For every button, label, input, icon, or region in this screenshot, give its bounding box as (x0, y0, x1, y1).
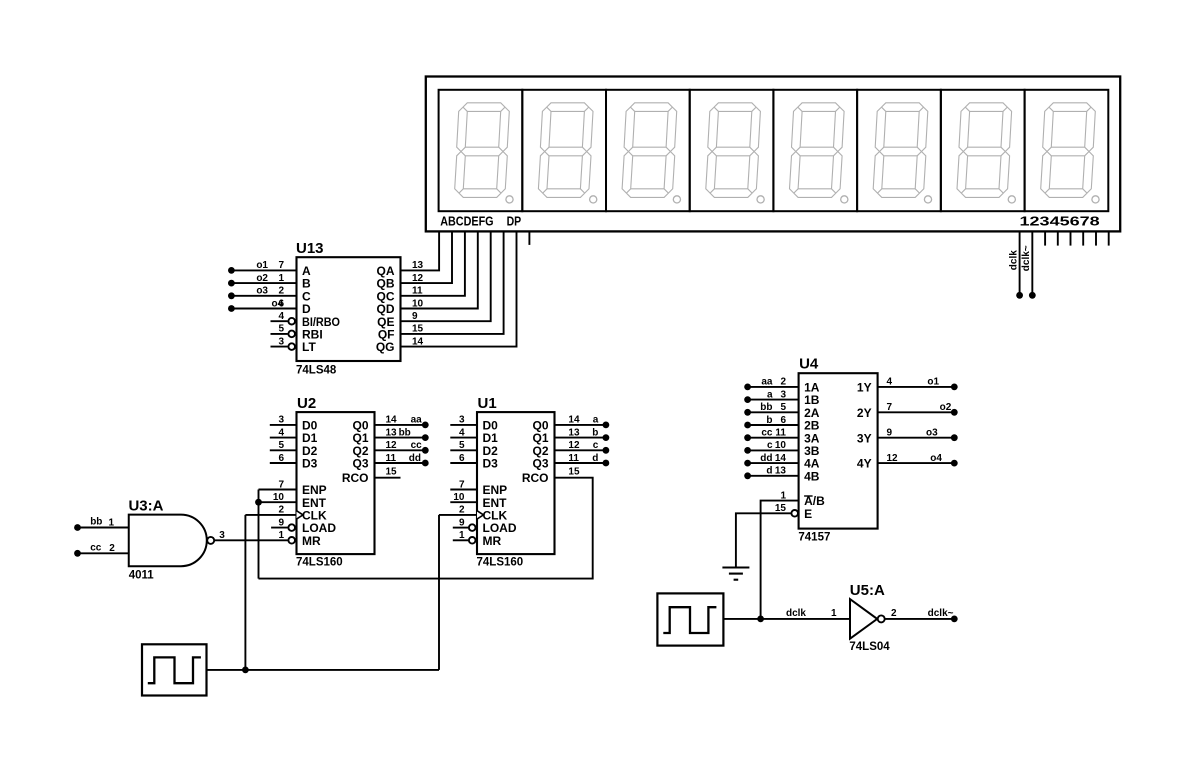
svg-text:5: 5 (278, 324, 284, 335)
svg-text:74LS160: 74LS160 (477, 557, 524, 569)
wire U13 QD to display segment D (401, 231, 478, 308)
svg-text:b: b (766, 415, 772, 426)
wire feedback vertical at U2 (258, 490, 260, 579)
svg-text:7: 7 (459, 479, 465, 490)
svg-text:dd: dd (760, 453, 772, 464)
U5:A output bubble (878, 615, 885, 622)
svg-text:12: 12 (568, 440, 580, 451)
wire U4 2Y to net o2 (878, 411, 955, 413)
node d terminal (603, 460, 610, 467)
counter U2 body (297, 412, 375, 554)
svg-text:12: 12 (386, 440, 398, 451)
node bb terminal (422, 434, 429, 441)
svg-text:MR: MR (302, 534, 321, 548)
U2 pin 3 stub D0 (270, 424, 297, 426)
wire clock1 to U2 CLK vertical (244, 515, 246, 670)
U2 pin 5 stub D2 (270, 449, 297, 451)
wire U2 Q2 to net cc (375, 449, 426, 451)
U3:A output bubble (207, 537, 214, 544)
svg-text:bb: bb (90, 517, 102, 528)
svg-text:4: 4 (887, 377, 893, 388)
svg-text:9: 9 (278, 517, 284, 528)
U4 inversion bubble E (791, 510, 798, 517)
svg-text:aa: aa (761, 377, 773, 388)
svg-text:MR: MR (483, 534, 502, 548)
mux U4 body (799, 373, 878, 528)
node cc terminal (744, 434, 751, 441)
wire c to U4 pin 10 (748, 449, 799, 451)
node o1 terminal (228, 267, 235, 274)
svg-text:3Y: 3Y (857, 431, 872, 445)
U1 pin 5 stub D2 (450, 449, 477, 451)
svg-text:3: 3 (219, 530, 225, 541)
junction ENT/ENP feedback (255, 499, 262, 506)
svg-text:dclk~: dclk~ (928, 608, 954, 619)
svg-text:14: 14 (775, 453, 787, 464)
wire a to U4 pin 3 (748, 399, 799, 401)
svg-text:1: 1 (108, 517, 114, 528)
svg-text:RCO: RCO (522, 471, 549, 485)
svg-text:13: 13 (568, 427, 580, 438)
svg-text:U5:A: U5:A (850, 582, 885, 599)
svg-text:5: 5 (278, 440, 284, 451)
node b terminal (603, 434, 610, 441)
node o4 terminal (228, 305, 235, 312)
clock source 1 waveform (148, 657, 201, 683)
U1 ENT stub (450, 501, 477, 503)
svg-text:2Y: 2Y (857, 406, 872, 420)
svg-text:2: 2 (278, 505, 284, 516)
wire U5:A output to dclk~ terminal (885, 618, 954, 620)
svg-text:aa: aa (411, 415, 423, 426)
node b terminal (744, 422, 751, 429)
node bb terminal (744, 409, 751, 416)
svg-text:o2: o2 (940, 402, 952, 413)
wire U2 Q3 to net dd (375, 462, 426, 464)
svg-text:11: 11 (412, 286, 423, 297)
svg-text:13: 13 (386, 427, 398, 438)
svg-text:10: 10 (453, 492, 465, 503)
svg-text:10: 10 (412, 298, 424, 309)
wire U2 Q1 to net bb (375, 437, 426, 439)
svg-text:9: 9 (887, 428, 893, 439)
wire dclk to U4 A/B select (761, 501, 799, 619)
wire U13 QG to display segment G (401, 231, 517, 346)
svg-text:U1: U1 (478, 395, 497, 412)
U2 pin 6 stub D3 (270, 462, 297, 464)
svg-text:4B: 4B (804, 469, 820, 483)
svg-text:1: 1 (831, 608, 837, 619)
seven-segment glyphs (8 digits) (455, 103, 1099, 203)
svg-text:74LS04: 74LS04 (849, 641, 890, 653)
node cc terminal (74, 550, 81, 557)
junction clock1 branch (242, 667, 249, 674)
svg-text:3: 3 (278, 336, 284, 347)
U2 inversion bubble MR (288, 537, 295, 544)
svg-text:dd: dd (409, 453, 421, 464)
svg-text:cc: cc (90, 543, 102, 554)
svg-text:15: 15 (568, 466, 580, 477)
svg-text:D3: D3 (302, 457, 318, 471)
U13 pin 4 stub (271, 320, 288, 322)
wire U13 QE to display segment E (401, 231, 491, 321)
svg-text:6: 6 (459, 453, 465, 464)
wire dclk from clock2 to U5:A input (723, 618, 850, 620)
svg-text:14: 14 (386, 415, 398, 426)
wire dd to U4 pin 14 (748, 462, 799, 464)
wire U4 3Y to net o3 (878, 437, 955, 439)
node dclk~ terminal (951, 616, 958, 623)
svg-text:QG: QG (376, 340, 395, 354)
svg-text:RCO: RCO (342, 471, 369, 485)
node cc terminal (422, 447, 429, 454)
svg-text:15: 15 (775, 503, 787, 514)
svg-text:4: 4 (278, 427, 284, 438)
svg-text:E: E (804, 507, 812, 521)
wire o3 to U13 pin 2 (231, 295, 296, 297)
svg-text:bb: bb (399, 427, 411, 438)
svg-text:12345678: 12345678 (1020, 214, 1100, 229)
svg-text:7: 7 (278, 479, 284, 490)
svg-text:10: 10 (273, 492, 285, 503)
node o3 terminal (228, 292, 235, 299)
svg-text:74157: 74157 (798, 531, 830, 543)
wire U2 ENT from feedback (259, 501, 297, 503)
wire o2 to U13 pin 1 (231, 282, 296, 284)
U13 pin 3 stub (271, 346, 288, 348)
svg-text:dclk: dclk (1008, 250, 1019, 270)
svg-text:10: 10 (775, 440, 787, 451)
svg-text:o3: o3 (926, 428, 938, 439)
wire cc input to U3:A pin 2 (78, 552, 129, 554)
inverter U5:A body (850, 599, 877, 639)
U1 MR stub (453, 539, 469, 541)
svg-text:7: 7 (887, 402, 893, 413)
svg-text:5: 5 (780, 402, 786, 413)
svg-text:o1: o1 (927, 377, 939, 388)
svg-text:74LS160: 74LS160 (296, 557, 343, 569)
wire U13 QB to display segment B (401, 231, 453, 283)
display digit cells grid (439, 90, 1109, 211)
svg-text:bb: bb (760, 402, 772, 413)
U1 inversion bubble LOAD (469, 524, 476, 531)
wire U3:A output to U2 MR (214, 539, 288, 541)
svg-text:15: 15 (412, 324, 424, 335)
U2 pin 4 stub D1 (270, 437, 297, 439)
svg-text:o1: o1 (256, 260, 268, 271)
svg-text:cc: cc (411, 440, 423, 451)
node o3 terminal (951, 434, 958, 441)
wire U4 1Y to net o1 (878, 386, 955, 388)
junction dclk to U4 A/B (757, 616, 764, 623)
wire dclk to display pin 1 (1019, 231, 1021, 295)
wire o4 to U13 pin 6 (231, 308, 296, 310)
svg-text:11: 11 (568, 453, 579, 464)
node o2 terminal (228, 280, 235, 287)
U1 pin 4 stub D1 (450, 437, 477, 439)
node a terminal (603, 422, 610, 429)
svg-text:3: 3 (459, 415, 465, 426)
svg-text:3: 3 (278, 415, 284, 426)
svg-text:U3:A: U3:A (128, 498, 163, 515)
node dclk~ terminal (1029, 292, 1036, 299)
U13 pin 5 stub (271, 333, 288, 335)
svg-text:2: 2 (780, 377, 786, 388)
svg-text:2: 2 (278, 286, 284, 297)
svg-text:d: d (766, 466, 772, 477)
node dclk terminal (1016, 292, 1023, 299)
wire d to U4 pin 13 (748, 475, 799, 477)
svg-text:d: d (592, 453, 598, 464)
svg-text:1: 1 (459, 530, 465, 541)
node o1 terminal (951, 384, 958, 391)
svg-text:Q3: Q3 (532, 457, 548, 471)
wire U1 CLK (439, 514, 477, 516)
U13 inversion bubble pin 4 (288, 318, 295, 325)
svg-text:c: c (767, 440, 773, 451)
svg-text:4: 4 (459, 427, 465, 438)
svg-text:3: 3 (780, 389, 786, 400)
U2 clock triangle (297, 511, 304, 519)
wire U13 QA to display segment A (401, 231, 440, 270)
wire U13 QF to display segment F (401, 231, 504, 334)
svg-text:1: 1 (780, 490, 786, 501)
wire cc to U4 pin 11 (748, 437, 799, 439)
wire dclk~ to display pin 2 (1031, 231, 1033, 295)
display digit-select pin stubs 3-8 (1045, 231, 1109, 245)
svg-text:b: b (592, 427, 598, 438)
U2 LOAD stub (271, 527, 288, 529)
wire U1 Q2 to net c (555, 449, 606, 451)
node aa terminal (422, 422, 429, 429)
svg-text:12: 12 (412, 273, 424, 284)
svg-text:o2: o2 (256, 273, 268, 284)
clock source box (dclk) (657, 593, 723, 645)
svg-text:4Y: 4Y (857, 457, 872, 471)
node aa terminal (744, 384, 751, 391)
svg-text:c: c (593, 440, 599, 451)
svg-text:dclk: dclk (786, 608, 806, 619)
U13 inversion bubble pin 3 (288, 343, 295, 350)
svg-text:1: 1 (278, 273, 284, 284)
U1 pin 6 stub D3 (450, 462, 477, 464)
svg-text:4011: 4011 (129, 570, 155, 582)
svg-text:2: 2 (109, 543, 115, 554)
svg-text:o3: o3 (256, 286, 268, 297)
svg-text:2: 2 (891, 608, 897, 619)
svg-text:7: 7 (278, 260, 284, 271)
wire U4 E to ground (736, 513, 791, 567)
node d terminal (744, 472, 751, 479)
svg-text:1: 1 (278, 530, 284, 541)
wire clock1 output (207, 669, 440, 671)
display DS1 outer body (426, 77, 1120, 232)
node c terminal (603, 447, 610, 454)
svg-text:U2: U2 (297, 395, 316, 412)
svg-text:o4: o4 (930, 453, 942, 464)
wire U1 Q1 to net b (555, 437, 606, 439)
U1 ENP stub (450, 489, 477, 491)
op U13 body (297, 257, 401, 361)
clock source 2 waveform (663, 607, 716, 633)
wire aa to U4 pin 2 (748, 386, 799, 388)
svg-text:11: 11 (386, 453, 397, 464)
wire U1 RCO feedback to U2 ENP/ENT (259, 478, 593, 579)
svg-text:9: 9 (412, 311, 418, 322)
svg-text:13: 13 (412, 260, 424, 271)
wire U1 Q0 to net a (555, 424, 606, 426)
wire clock1 to U1 CLK vertical (438, 515, 440, 670)
wire U1 Q3 to net d (555, 462, 606, 464)
svg-text:LT: LT (302, 340, 316, 354)
svg-text:74LS48: 74LS48 (296, 365, 337, 377)
svg-text:6: 6 (278, 453, 284, 464)
node dd terminal (422, 460, 429, 467)
node c terminal (744, 447, 751, 454)
svg-text:Q3: Q3 (352, 457, 368, 471)
node a terminal (744, 396, 751, 403)
wire bb to U4 pin 5 (748, 411, 799, 413)
U1 LOAD stub (453, 527, 469, 529)
svg-text:dclk~: dclk~ (1021, 245, 1032, 271)
wire U2 CLK (245, 514, 296, 516)
svg-text:6: 6 (780, 415, 786, 426)
clock source box (counters) (142, 644, 207, 695)
svg-text:ABCDEFG: ABCDEFG (440, 214, 493, 229)
wire b to U4 pin 6 (748, 424, 799, 426)
ground symbol (722, 568, 749, 580)
svg-text:D3: D3 (483, 457, 499, 471)
svg-text:U13: U13 (296, 240, 324, 257)
node dd terminal (744, 460, 751, 467)
svg-text:11: 11 (775, 428, 786, 439)
svg-text:12: 12 (887, 453, 899, 464)
svg-text:14: 14 (568, 415, 580, 426)
svg-text:13: 13 (775, 466, 787, 477)
svg-text:DP: DP (507, 214, 522, 229)
U1 pin 3 stub D0 (450, 424, 477, 426)
U1 inversion bubble MR (469, 537, 476, 544)
wire U2 ENP from feedback (259, 489, 297, 491)
counter U1 body (477, 412, 555, 554)
svg-text:9: 9 (459, 517, 465, 528)
svg-text:o4: o4 (272, 298, 284, 309)
wire U13 QC to display segment C (401, 231, 465, 295)
nand-gate U3:A body (129, 515, 207, 567)
node bb terminal (74, 524, 81, 531)
svg-text:cc: cc (761, 428, 773, 439)
svg-text:4: 4 (278, 311, 284, 322)
svg-text:U4: U4 (799, 355, 819, 372)
svg-text:5: 5 (459, 440, 465, 451)
node o4 terminal (951, 460, 958, 467)
U13 inversion bubble pin 5 (288, 331, 295, 338)
U2 RCO stub (375, 477, 401, 479)
svg-text:15: 15 (386, 466, 398, 477)
svg-text:2: 2 (459, 505, 465, 516)
wire o1 to U13 pin 7 (231, 269, 296, 271)
U2 inversion bubble LOAD (288, 524, 295, 531)
wire U4 4Y to net o4 (878, 462, 955, 464)
U1 clock triangle (477, 511, 484, 519)
display DP pin stub (528, 231, 530, 245)
svg-text:1Y: 1Y (857, 381, 872, 395)
svg-text:a: a (767, 389, 773, 400)
svg-text:a: a (593, 415, 599, 426)
wire U2 Q0 to net aa (375, 424, 426, 426)
wire bb input to U3:A pin 1 (78, 527, 129, 529)
node o2 terminal (951, 409, 958, 416)
svg-text:14: 14 (412, 336, 424, 347)
